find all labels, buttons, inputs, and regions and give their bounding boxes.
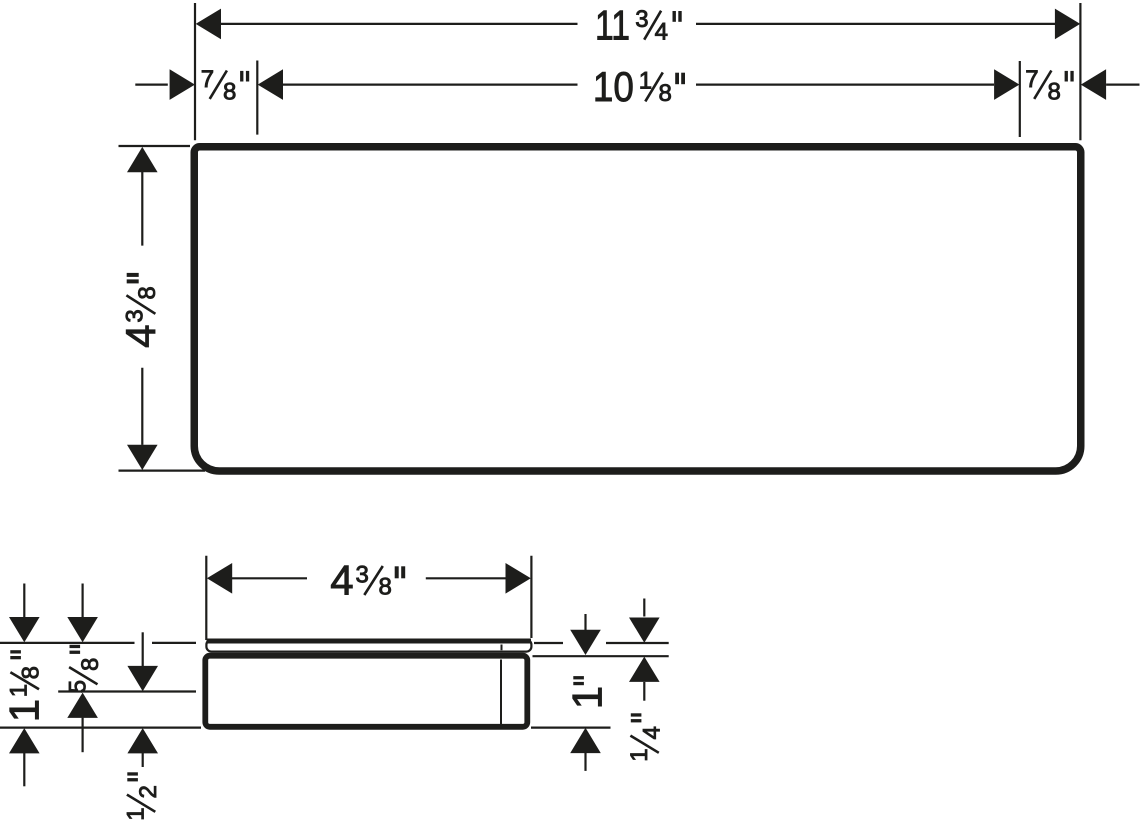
- svg-text:8: 8: [18, 666, 45, 679]
- svg-text:7: 7: [1025, 66, 1038, 93]
- svg-text:5: 5: [65, 680, 92, 693]
- 1/4 column lower line: [643, 682, 645, 701]
- 1 inch column lower line: [584, 753, 586, 771]
- arrow 10 1/8 right: [994, 69, 1019, 100]
- reference line right top (y=643) segment a: [534, 642, 563, 644]
- arrow 11 3/4 right: [1055, 9, 1080, 40]
- dimension line 11 3/4 left segment: [221, 23, 578, 25]
- label 4 3/8" bottom: [330, 557, 405, 604]
- dimension line 4 3/8 bottom right segment: [426, 577, 506, 579]
- 5/8 column upper line: [81, 584, 83, 620]
- label 1/4" (rotated): [626, 713, 665, 762]
- dimension line 4 3/8 upper segment: [141, 172, 143, 246]
- arrow 4 3/8 up: [127, 147, 158, 172]
- arrow 5/8 down: [67, 617, 98, 642]
- arrow 1 inch up: [570, 728, 601, 753]
- arrow 1 1/8 down: [9, 617, 40, 642]
- svg-text:3: 3: [122, 309, 149, 322]
- arrow 1 1/8 up: [9, 728, 40, 753]
- dimension line 11 3/4 right segment: [696, 23, 1056, 25]
- svg-text:1: 1: [626, 748, 653, 761]
- arrow 10 1/8 left: [258, 69, 283, 100]
- label 4 3/8" (rotated): [117, 273, 164, 348]
- label 10 1/8": [593, 63, 685, 110]
- svg-text:2: 2: [135, 785, 162, 798]
- extension line 4 3/8 top (horizontal): [119, 145, 191, 147]
- reference line right bottom (y=727.6): [531, 726, 611, 728]
- svg-text:8: 8: [77, 658, 104, 671]
- 1/2 column upper line: [142, 632, 144, 667]
- 1/4 column upper line: [643, 599, 645, 617]
- arrow 1 inch down: [570, 630, 601, 655]
- extension line 4 3/8 bottom-left: [205, 556, 207, 640]
- arrow 5/8 up: [67, 693, 98, 718]
- svg-text:1: 1: [564, 686, 611, 709]
- svg-text:3: 3: [356, 561, 369, 588]
- shelf plate side profile: [206, 640, 531, 652]
- extension line 4 3/8 bottom-right: [530, 556, 532, 638]
- shelf top view outline: [194, 147, 1081, 471]
- arrow 1/4 up: [629, 657, 660, 682]
- arrow 4 3/8 bottom left: [207, 563, 232, 594]
- holder body side profile: [205, 656, 527, 727]
- label 1 1/8" (rotated): [1, 650, 48, 722]
- extension line 10 1/8 right: [1019, 61, 1021, 137]
- shelf plate joint line right: [501, 645, 503, 651]
- reference line right middle (y=656.2): [533, 655, 669, 657]
- svg-text:8: 8: [379, 574, 392, 601]
- extension line 4 3/8 bottom (horizontal): [119, 470, 206, 472]
- reference line left middle (y=691.5): [58, 690, 196, 692]
- svg-text:7: 7: [201, 66, 214, 93]
- label 1/2" (rotated): [122, 772, 161, 821]
- label 11 3/4": [595, 1, 682, 48]
- svg-text:1: 1: [5, 684, 32, 697]
- arrow 1/4 down: [629, 618, 660, 643]
- extension line right (11 3/4 / 7/8): [1079, 3, 1081, 140]
- svg-text:4: 4: [638, 726, 665, 739]
- svg-text:1: 1: [639, 68, 652, 95]
- dimension line 4 3/8 bottom left segment: [232, 577, 308, 579]
- arrow 7/8 right (pointing left): [1081, 69, 1106, 100]
- reference line right top (y=643) segment b: [606, 642, 669, 644]
- 1 1/8 column lower line: [23, 753, 25, 786]
- svg-text:8: 8: [1048, 78, 1061, 105]
- extension line left (11 3/4 / 7/8): [194, 3, 196, 140]
- extension line 10 1/8 left: [256, 61, 258, 135]
- arrow 1/2 up: [127, 728, 158, 753]
- label 7/8" left: [201, 66, 250, 105]
- 5/8 column lower line: [81, 718, 83, 753]
- svg-text:8: 8: [223, 78, 236, 105]
- reference line left top (y=643) segment a: [0, 642, 135, 644]
- svg-text:4: 4: [655, 18, 668, 45]
- arrow 11 3/4 left: [196, 9, 221, 40]
- arrow 1/2 down: [127, 666, 158, 691]
- svg-text:4: 4: [330, 557, 353, 604]
- arrow 7/8 left (pointing right): [170, 69, 195, 100]
- label 5/8" (rotated): [65, 645, 104, 694]
- arrow 4 3/8 down: [127, 445, 158, 470]
- dimension line 10 1/8 left segment: [283, 83, 578, 85]
- reference line left bottom (y=727.6): [0, 726, 201, 728]
- arrow 4 3/8 bottom right: [506, 563, 531, 594]
- svg-text:1: 1: [122, 807, 149, 820]
- dimension line 10 1/8 right segment: [696, 83, 994, 85]
- label 1" (rotated): [564, 676, 611, 709]
- 1/2 column lower line: [142, 753, 144, 767]
- holder body inner edge line: [500, 660, 502, 725]
- label 7/8" right: [1025, 66, 1074, 105]
- svg-text:8: 8: [659, 80, 672, 107]
- dimension line 4 3/8 lower segment: [141, 368, 143, 445]
- dimension line 7/8 right outside segment: [1106, 83, 1139, 85]
- svg-text:10: 10: [593, 63, 634, 110]
- 1 1/8 column upper line: [23, 584, 25, 620]
- svg-text:11: 11: [595, 1, 630, 48]
- svg-text:8: 8: [134, 286, 161, 299]
- shelf plate top edge (thick): [207, 639, 532, 644]
- 1 inch column upper line: [584, 614, 586, 631]
- svg-text:1: 1: [1, 699, 48, 722]
- reference line left top (y=643) segment b: [152, 642, 196, 644]
- dimension line 7/8 left outside segment: [135, 83, 168, 85]
- svg-text:4: 4: [117, 325, 164, 348]
- svg-text:3: 3: [635, 6, 648, 33]
